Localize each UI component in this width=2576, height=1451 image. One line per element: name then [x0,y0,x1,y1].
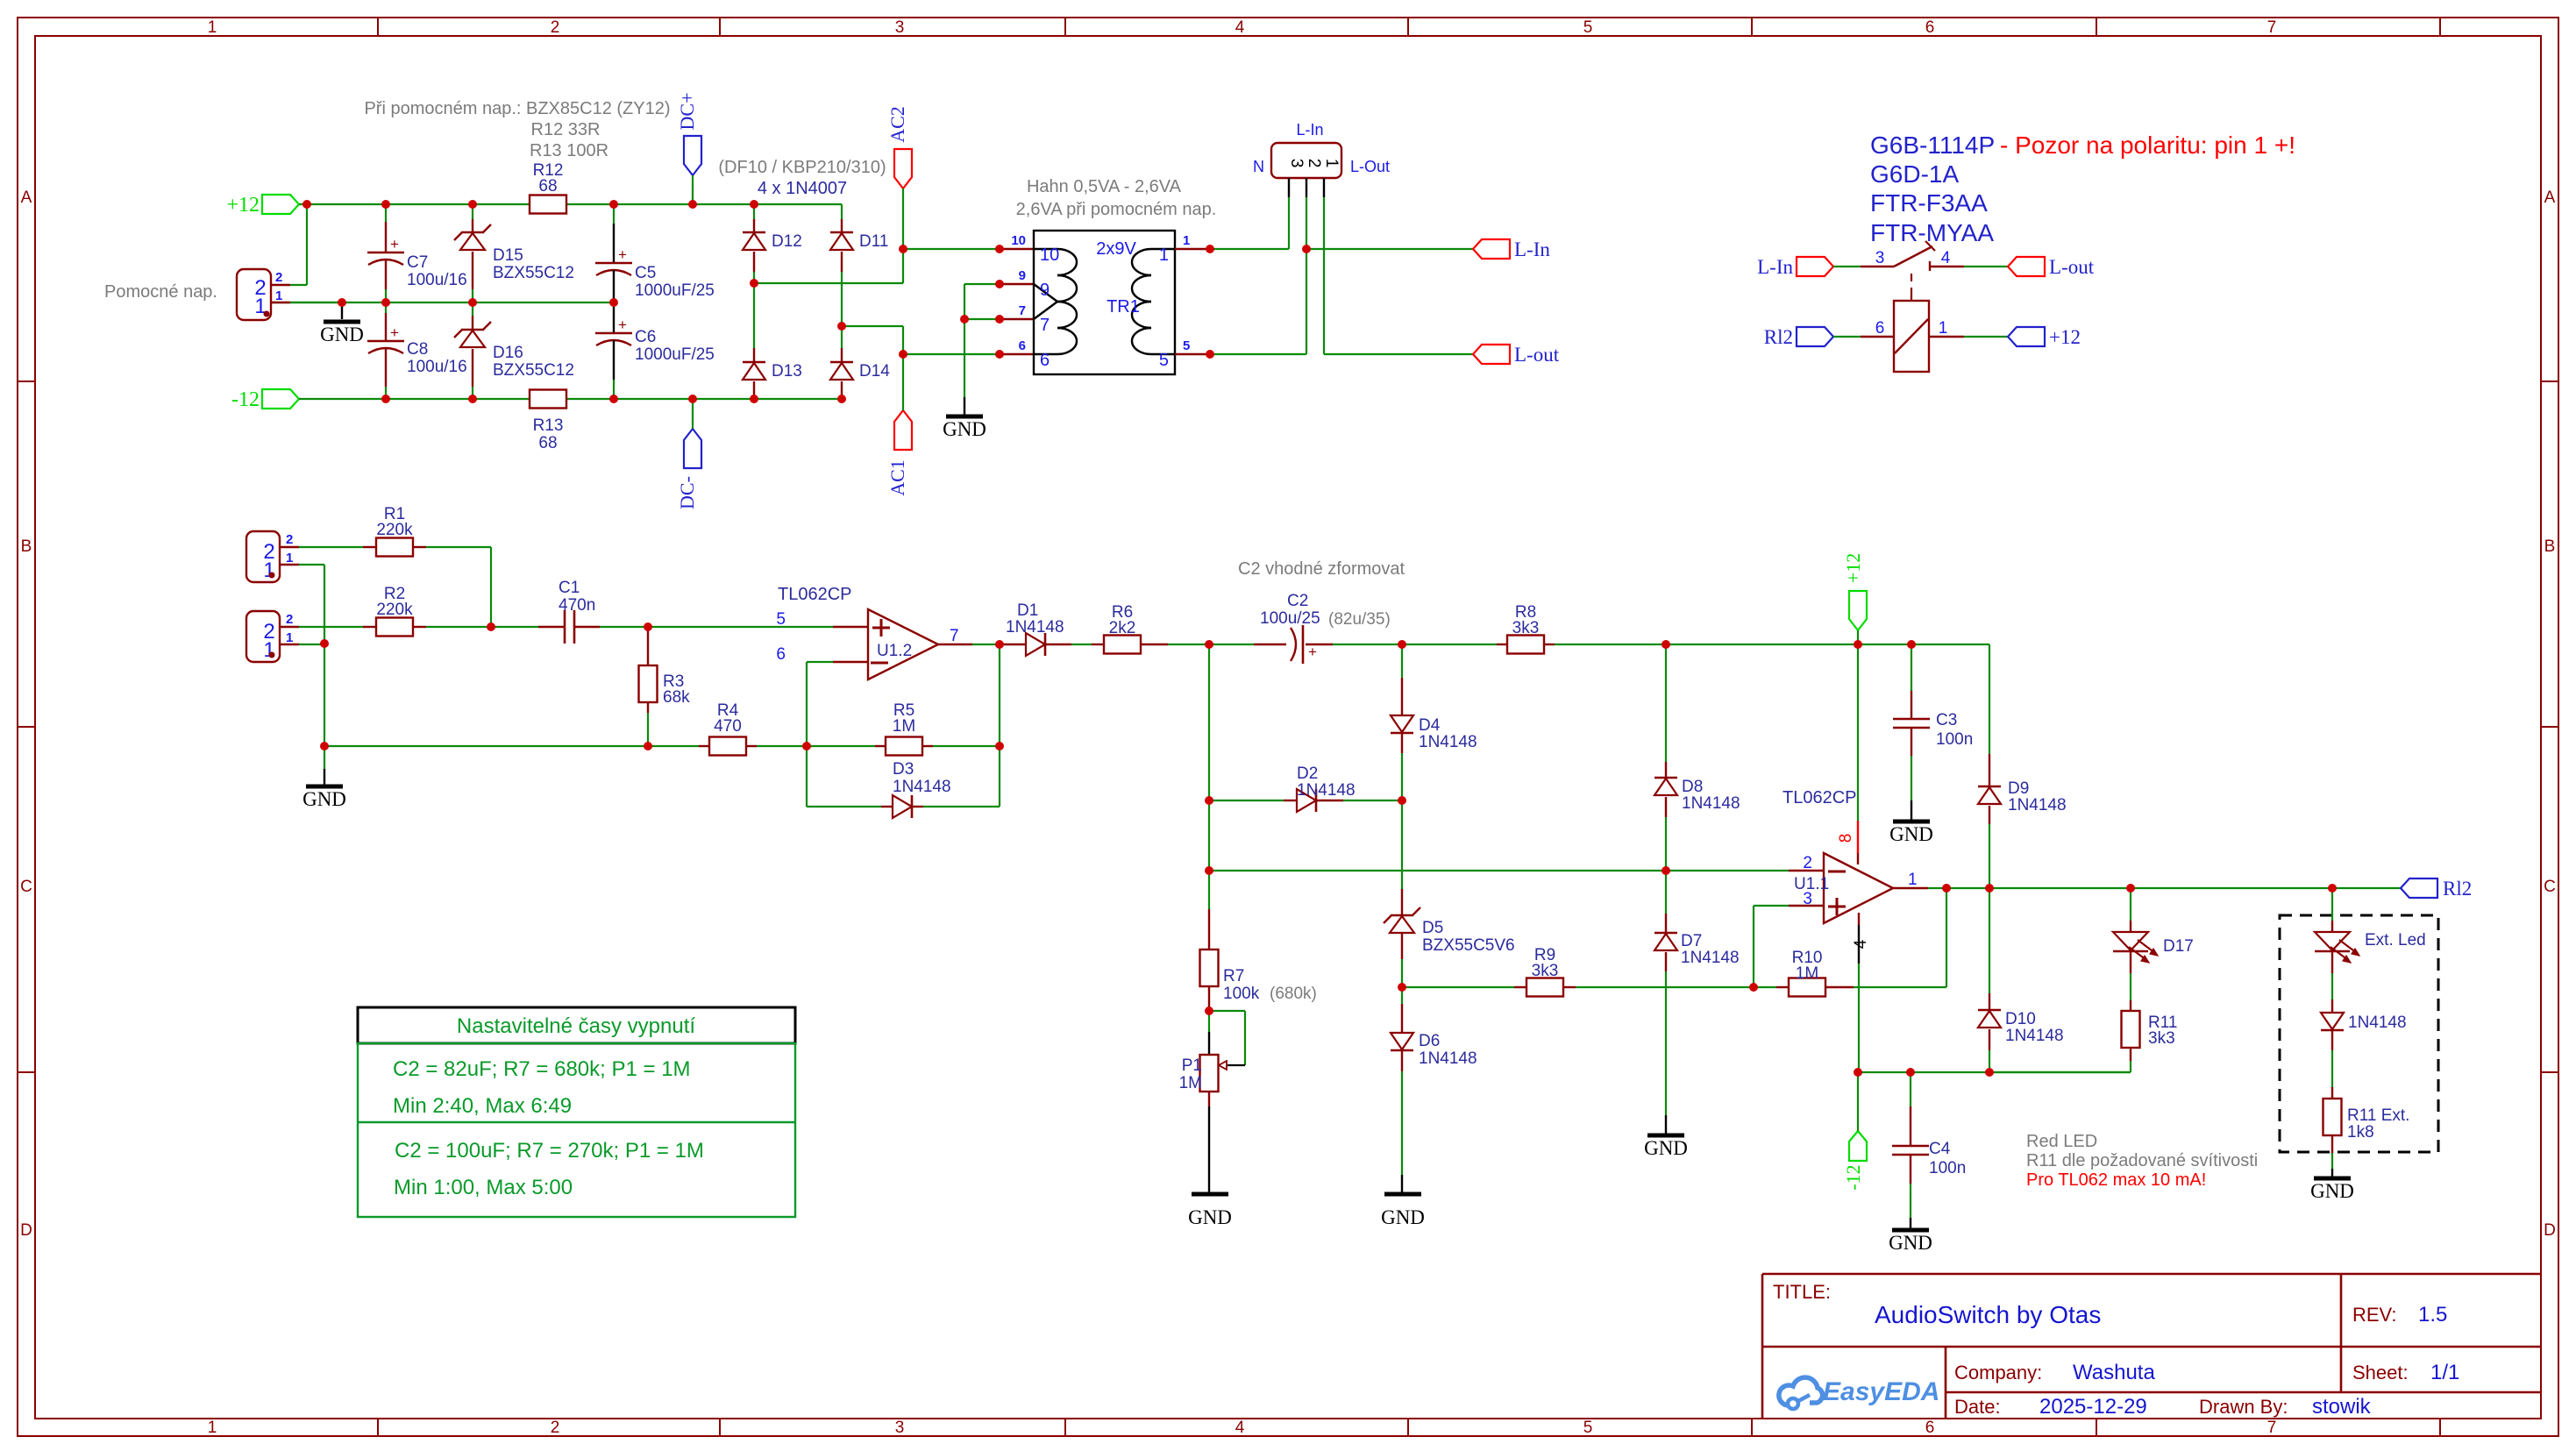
svg-text:6: 6 [776,645,786,664]
svg-text:68k: 68k [663,688,690,707]
net flag L-out relay [2008,256,2095,278]
svg-text:BZX55C12: BZX55C12 [493,361,574,380]
svg-text:2: 2 [286,612,293,627]
svg-text:B: B [21,537,32,556]
svg-text:FTR-MYAA: FTR-MYAA [1870,219,1994,246]
connector L-In mains [1253,121,1390,197]
svg-text:1M: 1M [1179,1074,1202,1092]
svg-text:D17: D17 [2163,937,2194,956]
net flag DC+ [676,93,701,204]
svg-text:TR1: TR1 [1107,297,1140,317]
svg-text:TL062CP: TL062CP [778,585,852,604]
svg-text:+: + [1308,644,1317,660]
table Nastavitelné časy vypnutí [358,1007,795,1217]
zener D15 [454,204,574,302]
diode D2 [1209,765,1402,812]
wire feedback [1946,888,1947,987]
svg-text:GND: GND [320,324,364,345]
connector Pomocné nap. [237,269,290,320]
svg-text:4: 4 [1852,939,1870,949]
resistor R13 [530,390,566,453]
svg-text:DC+: DC+ [676,93,698,131]
wire TR1 pin5 [1175,353,1306,355]
svg-text:D: D [2544,1221,2556,1240]
svg-text:100n: 100n [1929,1159,1966,1177]
svg-text:D: D [20,1221,32,1240]
svg-text:7: 7 [2267,18,2277,37]
wire +12 rail right [566,203,842,205]
svg-text:AC2: AC2 [886,106,908,143]
svg-text:3k3: 3k3 [1512,619,1540,637]
svg-text:+12: +12 [2049,326,2081,348]
capacitor C5 [595,204,715,302]
resistor R3 [639,627,691,746]
svg-text:D9: D9 [2008,779,2029,798]
diode D3 [881,760,1000,818]
transformer TR1 [1011,231,1190,374]
note text top-left [364,99,670,160]
resistor R12 [530,161,566,214]
diode D7 [1654,871,1740,1134]
svg-text:GND: GND [1644,1137,1688,1159]
net flag +12 [226,194,299,217]
wire mid GND rail [271,302,614,303]
svg-text:GND: GND [1381,1206,1425,1228]
svg-text:R11 Ext.: R11 Ext. [2347,1106,2409,1125]
svg-text:1: 1 [1939,319,1948,338]
svg-text:3: 3 [1803,890,1812,908]
wire conn2 pin1 [299,644,324,645]
wire out row [1928,887,2401,889]
svg-text:BZX55C12: BZX55C12 [493,264,574,282]
resistor R11 [2122,1000,2178,1072]
svg-text:3: 3 [1287,159,1306,168]
svg-text:GND: GND [1889,823,1933,845]
relay contact [1833,241,1964,298]
svg-text:R11 dle požadované svítivosti: R11 dle požadované svítivosti [2026,1151,2258,1170]
wire top rail right [1666,644,1989,645]
svg-text:BZX55C5V6: BZX55C5V6 [1422,936,1515,955]
svg-text:2025-12-29: 2025-12-29 [2039,1395,2147,1419]
svg-text:1: 1 [208,18,217,37]
svg-text:A: A [2544,188,2556,207]
svg-text:1N4148: 1N4148 [2005,1027,2064,1045]
net flag Rl2 out [2401,878,2472,900]
svg-text:2x9V: 2x9V [1096,239,1136,259]
ground GND D6 [1381,1194,1425,1228]
svg-text:1000uF/25: 1000uF/25 [635,345,715,364]
svg-text:EasyEDA: EasyEDA [1823,1377,1939,1406]
wire pin2 row [1209,870,1789,871]
wire TR1 pin10 [903,248,1034,250]
wire GND stem TR1 [964,284,965,397]
svg-text:D16: D16 [493,344,523,362]
wire node drop [1208,800,1210,871]
svg-text:3: 3 [895,1419,905,1437]
svg-text:470n: 470n [559,596,595,615]
resistor R6 [1092,603,1209,654]
svg-text:6: 6 [1040,351,1050,370]
capacitor C8 [367,302,467,399]
svg-text:GND: GND [1188,1206,1232,1228]
wire contact to L-out [1964,266,2008,267]
connector input1 [246,531,299,582]
svg-text:470: 470 [714,717,742,736]
svg-text:+: + [618,246,627,263]
wire pin6 net [807,662,833,746]
svg-text:3: 3 [1875,249,1885,267]
svg-text:4: 4 [1235,1419,1245,1437]
svg-text:68: 68 [538,434,557,452]
svg-text:Pomocné nap.: Pomocné nap. [104,282,217,302]
svg-text:1N4148: 1N4148 [1682,794,1740,813]
svg-text:2: 2 [286,532,293,547]
wire conn pin3 [1288,197,1290,249]
wire D3 branch left [807,746,881,807]
svg-text:Washuta: Washuta [2073,1361,2155,1384]
svg-text:10: 10 [1040,245,1059,265]
wire to L-In flag [1306,248,1473,250]
svg-text:G6B-1114P: G6B-1114P [1870,132,1995,159]
svg-text:C4: C4 [1929,1140,1951,1158]
svg-text:10: 10 [1011,233,1026,248]
wire pin3 riser [1754,906,1789,987]
svg-text:7: 7 [950,627,959,645]
svg-text:1.5: 1.5 [2418,1303,2447,1327]
svg-text:Red LED: Red LED [2026,1132,2097,1151]
svg-text:2: 2 [551,1419,560,1437]
svg-text:220k: 220k [376,521,413,539]
svg-text:D11: D11 [859,232,888,251]
svg-text:D15: D15 [493,246,523,265]
svg-text:8: 8 [1837,834,1855,843]
wire C2 minus drop [1208,644,1210,800]
ext led dashed box [2280,915,2438,1152]
svg-text:Min 1:00, Max 5:00: Min 1:00, Max 5:00 [394,1176,573,1199]
svg-text:100n: 100n [1936,730,1973,749]
svg-text:D3: D3 [893,760,914,779]
svg-text:+: + [618,317,627,333]
svg-text:4: 4 [1941,249,1951,267]
wire TR1 pin6 [903,353,1034,355]
note text red led [2026,1132,2258,1190]
svg-text:2: 2 [1803,854,1812,872]
wire bottom row [1858,1071,2131,1073]
svg-text:C1: C1 [559,579,580,597]
capacitor C4 [1892,1072,1966,1228]
svg-text:100u/16: 100u/16 [407,271,467,289]
svg-text:AC1: AC1 [886,459,908,496]
svg-text:1M: 1M [893,717,915,736]
svg-text:+12: +12 [226,194,260,217]
capacitor C3 [1893,644,1973,820]
svg-text:C8: C8 [407,340,428,359]
diode Ext 1N4148 [2321,951,2407,1032]
svg-text:C5: C5 [635,264,656,282]
svg-text:+: + [390,236,399,253]
svg-text:1: 1 [286,551,293,565]
wire gnd row [324,745,699,747]
svg-text:GND: GND [2310,1180,2354,1202]
diode D10 [1978,888,2064,1072]
svg-text:1N4148: 1N4148 [1419,733,1477,751]
op-amp U1.2 [776,585,972,679]
net flag +12 relay [2008,326,2081,348]
svg-text:Při pomocném nap.: BZX85C12 (Z: Při pomocném nap.: BZX85C12 (ZY12) [364,99,670,118]
svg-text:DC-: DC- [676,476,698,509]
svg-text:1N4148: 1N4148 [2008,796,2067,814]
wire connector pin2 riser [290,204,307,285]
svg-text:C2 = 82uF; R7 = 680k; P1 = 1M: C2 = 82uF; R7 = 680k; P1 = 1M [393,1057,691,1081]
svg-text:5: 5 [1583,1419,1593,1437]
svg-text:L-out: L-out [2049,256,2095,278]
junction dots power [302,200,1311,403]
svg-text:Date:: Date: [1954,1396,2001,1418]
svg-text:7: 7 [1040,316,1050,335]
note text Hahn [1016,177,1217,219]
capacitor C7 [367,204,467,302]
svg-text:-12: -12 [1842,1164,1864,1190]
svg-text:6: 6 [1875,319,1885,338]
net flag L-out top [1473,344,1560,366]
svg-text:C: C [20,878,32,896]
net flag Rl2 relay [1764,326,1833,348]
led D17 [2113,888,2194,1000]
note text C2 [1238,559,1405,579]
wire pin8 supply [1837,644,1858,864]
resistor R11 Ext [2323,1030,2410,1177]
svg-text:1: 1 [1159,245,1169,265]
svg-text:C7: C7 [407,253,428,272]
svg-text:C2: C2 [1287,592,1308,610]
diode D13 [743,283,802,399]
svg-text:GND: GND [302,788,346,810]
svg-text:D10: D10 [2005,1010,2036,1028]
wire conn pin2 [1306,197,1307,354]
relay coil [1833,295,1964,372]
svg-text:4: 4 [1235,18,1245,37]
diode D14 [830,326,890,399]
svg-text:R7: R7 [1223,967,1244,985]
resistor R4 [699,701,807,756]
resistor R7 [1200,871,1317,1011]
diode D6 [1391,987,1477,1192]
resistor R1 [299,505,491,557]
svg-text:FTR-F3AA: FTR-F3AA [1870,189,1988,217]
svg-text:100u/16: 100u/16 [407,358,467,376]
wire conn1 pin1 gnd [299,565,324,746]
svg-text:2k2: 2k2 [1109,619,1136,637]
capacitor C6 [595,302,715,399]
wire R11 to row [1990,1071,2131,1073]
svg-text:1: 1 [208,1419,217,1437]
svg-text:9: 9 [1019,268,1026,283]
svg-text:Company:: Company: [1954,1362,2042,1383]
wire TR1 pin7 [964,318,1034,320]
diode D8 [1654,644,1740,871]
svg-text:C: C [2544,878,2556,896]
svg-text:R13 100R: R13 100R [530,141,608,160]
svg-text:L-In: L-In [1514,238,1550,260]
svg-text:1: 1 [1908,871,1918,889]
svg-text:7: 7 [2267,1419,2277,1437]
ground GND mid-left [302,746,346,810]
svg-text:C6: C6 [635,328,656,346]
wire conn pin1 [1324,197,1473,354]
svg-text:TL062CP: TL062CP [1783,788,1857,807]
wire TR1 pin1 [1175,248,1289,250]
note text bridge [718,158,886,198]
svg-text:2,6VA při pomocném nap.: 2,6VA při pomocném nap. [1016,200,1217,219]
wire connector pin1 [290,302,342,303]
svg-text:AudioSwitch by Otas: AudioSwitch by Otas [1875,1301,2101,1328]
wire AC2 to bridge [754,282,903,284]
net flag -12 bottom [1842,1072,1867,1191]
ground GND power-left [320,302,364,345]
svg-text:C2 vhodné zformovat: C2 vhodné zformovat [1238,559,1405,579]
svg-text:1M: 1M [1796,964,1818,983]
svg-text:1N4148: 1N4148 [1006,618,1064,637]
svg-text:L-In: L-In [1757,256,1793,278]
svg-text:+12: +12 [1842,553,1864,583]
svg-text:Ext. Led: Ext. Led [2365,931,2426,950]
svg-text:P1: P1 [1182,1056,1202,1075]
svg-text:Drawn By:: Drawn By: [2199,1396,2288,1418]
svg-text:Sheet:: Sheet: [2352,1362,2409,1383]
ground GND TR1 [943,397,986,440]
led Ext [2315,888,2426,963]
svg-text:1: 1 [286,630,293,645]
net flag L-In top [1473,238,1550,260]
svg-text:TITLE:: TITLE: [1773,1281,1831,1303]
connector input2 [246,611,299,662]
svg-text:4 x 1N4007: 4 x 1N4007 [758,179,847,198]
svg-text:220k: 220k [376,601,413,619]
diode D9 [1978,644,2067,888]
label Pomocné nap. [104,282,217,302]
potentiometer P1 [1179,1011,1227,1192]
svg-text:1N4148: 1N4148 [1419,1049,1477,1068]
svg-text:D6: D6 [1419,1032,1440,1050]
svg-text:7: 7 [1019,303,1026,318]
svg-text:+: + [390,324,399,341]
svg-text:R12 33R: R12 33R [531,120,601,139]
EasyEDA logo [1779,1377,1940,1409]
svg-text:5: 5 [1583,18,1593,37]
net flag DC- [676,399,701,509]
svg-text:Rl2: Rl2 [2443,878,2472,900]
svg-text:GND: GND [1889,1232,1932,1254]
resistor R8 [1402,603,1666,654]
svg-text:1: 1 [263,638,274,662]
svg-text:Hahn 0,5VA - 2,6VA: Hahn 0,5VA - 2,6VA [1027,177,1182,196]
svg-text:L-out: L-out [1514,344,1560,366]
net flag -12 [231,388,299,411]
svg-text:1000uF/25: 1000uF/25 [635,281,715,300]
svg-text:R13: R13 [533,416,564,435]
note text relay types [1870,132,2295,246]
net flag +12 mid [1842,553,1867,644]
wire U1.2 out [972,644,1000,645]
op-amp U1.1 [1783,788,1928,923]
svg-text:U1.2: U1.2 [877,642,912,660]
svg-text:1: 1 [275,288,282,303]
svg-text:6: 6 [1925,18,1935,37]
svg-text:(680k): (680k) [1270,985,1317,1003]
svg-text:(DF10 / KBP210/310): (DF10 / KBP210/310) [718,158,886,177]
resistor R10 [1754,949,1946,997]
svg-text:Rl2: Rl2 [1764,326,1793,348]
svg-text:C3: C3 [1936,711,1957,729]
ground GND C4 [1889,1230,1932,1254]
svg-text:2: 2 [1305,159,1323,168]
svg-text:1k8: 1k8 [2347,1123,2374,1142]
wire wiper loop [1209,1011,1245,1065]
svg-text:A: A [21,188,32,207]
diode D4 [1391,644,1477,800]
svg-text:2: 2 [275,270,282,285]
resistor R2 [299,585,491,637]
net flag L-In relay [1757,256,1833,278]
svg-text:3k3: 3k3 [2148,1029,2175,1048]
svg-text:1N4148: 1N4148 [1681,949,1740,967]
svg-text:N: N [1253,158,1264,175]
svg-text:6: 6 [1019,338,1026,353]
svg-text:D14: D14 [859,362,890,381]
svg-text:Pro TL062 max 10 mA!: Pro TL062 max 10 mA! [2026,1170,2206,1190]
svg-text:stowik: stowik [2312,1395,2372,1419]
resistor R5 [807,701,1000,756]
svg-text:3: 3 [895,18,905,37]
svg-text:2: 2 [551,18,560,37]
ground GND D7 [1644,1135,1688,1159]
ground GND C3 [1889,822,1933,845]
wire D3 branch right [999,644,1000,807]
svg-text:REV:: REV: [2352,1304,2397,1326]
wire +12 rail left [299,203,530,205]
svg-text:5: 5 [1159,351,1169,370]
svg-text:D2: D2 [1297,765,1318,783]
svg-text:-12: -12 [231,388,260,411]
diode D1 [1000,601,1092,656]
svg-text:D5: D5 [1422,919,1443,937]
wire bridge to AC1 [842,326,903,354]
wire pin4 supply [1852,913,1870,1072]
svg-text:1: 1 [1322,159,1341,168]
svg-text:Nastavitelné časy vypnutí: Nastavitelné časy vypnutí [457,1014,695,1038]
diode D11 [830,204,888,326]
capacitor C1 [491,579,833,644]
capacitor C2 [1209,592,1402,664]
ground GND Ext [2310,1178,2354,1202]
zener D5 [1384,800,1515,987]
svg-text:G6D-1A: G6D-1A [1870,160,1959,188]
net flag AC1 [886,354,912,496]
svg-text:(82u/35): (82u/35) [1328,610,1391,629]
svg-text:- Pozor na polaritu: pin 1 +!: - Pozor na polaritu: pin 1 +! [2000,132,2295,159]
svg-text:D13: D13 [772,362,802,381]
title block [1762,1274,2541,1419]
svg-text:1: 1 [263,558,274,582]
svg-text:D8: D8 [1682,778,1703,796]
wire -12 rail left [299,398,530,400]
svg-text:L-In: L-In [1296,121,1323,139]
junction dots middle [320,622,2337,1077]
svg-text:3k3: 3k3 [1532,962,1559,980]
svg-text:100u/25: 100u/25 [1260,609,1320,628]
svg-text:D1: D1 [1017,601,1038,620]
svg-text:D4: D4 [1419,716,1441,735]
